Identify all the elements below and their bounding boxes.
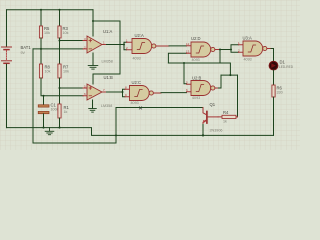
U2:A tied-input connector — [124, 42, 127, 50]
wire R7 bottom to opamp B non-inverting input — [60, 78, 84, 88]
feedback vertical wire — [33, 49, 116, 143]
op-amp U1:A — [83, 36, 107, 53]
wire U2:B in1 drop — [184, 63, 187, 84]
NAND gate U2:C — [125, 85, 161, 100]
resistor R1 top lead — [59, 88, 61, 104]
svg-text:U2:A: U2:A — [135, 33, 145, 38]
resistor R5 top lead — [40, 10, 42, 26]
opamp U1:A V+ branch wires — [93, 10, 120, 84]
feedback vertical at x=116 — [115, 108, 117, 144]
svg-text:Q1: Q1 — [210, 102, 216, 107]
svg-text:1k: 1k — [64, 110, 68, 114]
junction at 220,49.5 — [219, 48, 221, 50]
svg-text:U3:A: U3:A — [243, 36, 253, 41]
NAND gate U2:B — [186, 80, 219, 95]
top +V rail wire — [7, 9, 94, 11]
wire Q1 emitter to ground rail — [202, 125, 204, 136]
resistor R3 — [58, 26, 61, 38]
resistor R6 — [272, 85, 275, 97]
wire horizontal net at y63 — [168, 63, 230, 75]
wire U3:A out to LED — [271, 49, 274, 62]
svg-text:R4: R4 — [223, 110, 229, 115]
svg-text:LM358: LM358 — [102, 59, 113, 63]
resistor R1 — [58, 104, 61, 118]
wire U2:B output riser — [220, 75, 222, 88]
svg-text:12: 12 — [186, 42, 190, 46]
capacitor C1 top lead — [43, 96, 45, 105]
ground symbol lower-left — [45, 128, 54, 135]
wire R3 bottom to +input node — [59, 38, 61, 64]
wire U2:B output stub — [219, 87, 222, 89]
svg-text:4093: 4093 — [131, 101, 139, 105]
svg-text:2N3906: 2N3906 — [210, 128, 223, 132]
svg-text:10k: 10k — [63, 70, 69, 74]
svg-text:9V: 9V — [21, 51, 26, 55]
resistor R1 bottom lead — [59, 118, 61, 128]
resistor R3 top lead — [59, 10, 61, 26]
NAND gate U2:D — [186, 42, 219, 57]
svg-text:D1: D1 — [280, 59, 286, 64]
wire LED to R6 — [273, 70, 275, 85]
wire opamp A non-inverting input — [60, 40, 84, 42]
svg-text:U1:B: U1:B — [104, 75, 114, 80]
ground symbol under U1:B — [89, 109, 97, 113]
junction at emitter rail — [202, 134, 204, 136]
LED D1 — [269, 61, 278, 70]
capacitor C1 — [38, 105, 49, 114]
NAND gate U3:A — [238, 41, 271, 56]
svg-text:10k: 10k — [63, 31, 69, 35]
op-amp U1:B — [83, 84, 107, 100]
capacitor C1 bottom lead — [43, 114, 45, 128]
junction — [58, 9, 60, 11]
svg-text:1k: 1k — [223, 120, 227, 124]
svg-text:4093: 4093 — [192, 96, 200, 100]
svg-text:U2:C: U2:C — [132, 80, 142, 85]
wire feedback horizontal to Q1 collector — [116, 107, 203, 109]
wire opamp A inverting input / feedback — [33, 48, 83, 50]
wire y75 to base resistor column — [221, 74, 238, 76]
battery BAT1 — [2, 47, 12, 63]
wire U2:C out to U2:B in2 — [161, 92, 187, 94]
svg-text:13: 13 — [186, 50, 190, 54]
wire U2:D in2 down-left leg — [168, 53, 186, 63]
svg-text:10k: 10k — [44, 31, 50, 35]
svg-text:10k: 10k — [45, 70, 51, 74]
svg-text:4093: 4093 — [244, 57, 252, 61]
opamp U1:B V- to ground — [92, 100, 94, 108]
svg-text:U2:B: U2:B — [192, 75, 202, 80]
junction at 230,75 — [229, 74, 231, 76]
small x marker — [139, 107, 141, 109]
svg-text:BAT1: BAT1 — [21, 45, 32, 50]
resistor R5 — [39, 26, 42, 38]
svg-text:LM358: LM358 — [101, 104, 112, 108]
wire R8 bottom to opamp B inverting input — [41, 78, 83, 96]
wire U2:A out to U2:D in1 — [169, 45, 187, 47]
svg-text:U1:A: U1:A — [103, 29, 113, 34]
wire U2:D out to U3:A inputs — [220, 45, 239, 63]
background grid — [0, 0, 300, 150]
U2:C tied-input connector — [123, 89, 126, 97]
junction at 116,135 — [115, 134, 117, 136]
svg-text:4093: 4093 — [192, 58, 200, 62]
wire U1:B output to U2:C — [107, 91, 123, 93]
wire R6 bottom to ground rail — [273, 97, 275, 135]
svg-text:LED-RED: LED-RED — [279, 65, 294, 69]
opamp U1:A V- to ground — [92, 53, 94, 65]
transistor Q1 — [203, 108, 218, 125]
ground rail bottom-left — [7, 128, 274, 136]
junction at 184,63 — [183, 62, 185, 64]
ground symbol under U1:A — [88, 66, 98, 70]
junction at 231,49.5 — [230, 48, 232, 50]
svg-text:4093: 4093 — [133, 57, 141, 61]
svg-text:U2:D: U2:D — [191, 36, 201, 41]
resistor R7 — [58, 64, 61, 78]
wire U1:A output to U2:A — [107, 44, 125, 46]
junction — [40, 9, 42, 11]
resistor R4 (base) — [218, 115, 238, 118]
wire battery top lead — [6, 10, 8, 47]
NAND gate U2:A — [126, 38, 169, 53]
resistor R8 — [39, 64, 42, 78]
svg-text:330: 330 — [277, 90, 283, 94]
wire R5 bottom to feedback node — [40, 38, 42, 64]
wire base resistor column — [237, 75, 239, 117]
wire battery bottom lead — [6, 64, 8, 127]
